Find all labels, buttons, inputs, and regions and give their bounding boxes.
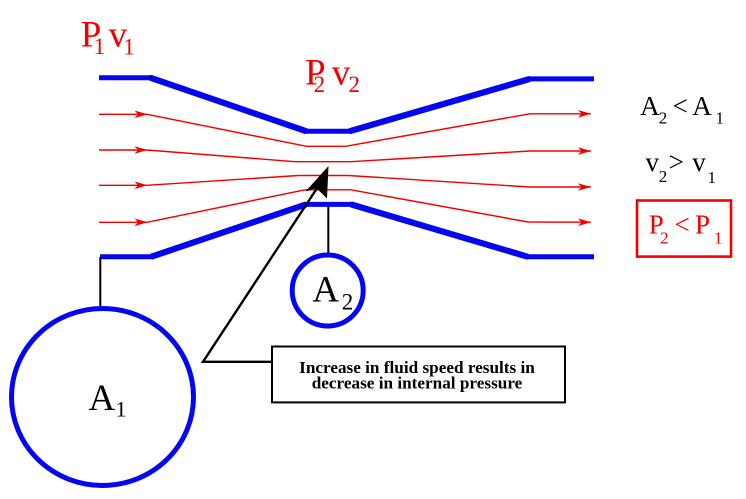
- svg-text:A: A: [640, 91, 660, 121]
- svg-text:v: v: [692, 147, 706, 177]
- svg-text:2: 2: [342, 289, 354, 314]
- svg-text:decrease in internal pressure: decrease in internal pressure: [312, 374, 523, 393]
- svg-text:P: P: [695, 210, 710, 240]
- svg-text:A: A: [89, 378, 116, 419]
- svg-text:1: 1: [716, 108, 725, 127]
- svg-text:2: 2: [659, 108, 668, 127]
- svg-text:A: A: [312, 270, 339, 311]
- svg-text:1: 1: [94, 34, 106, 59]
- svg-text:2: 2: [349, 72, 361, 97]
- svg-text:1: 1: [708, 168, 717, 187]
- svg-text:>: >: [669, 147, 684, 177]
- svg-text:A: A: [692, 91, 712, 121]
- svg-text:1: 1: [123, 34, 135, 59]
- svg-text:<: <: [675, 210, 690, 240]
- svg-text:<: <: [673, 91, 688, 121]
- svg-text:2: 2: [314, 72, 326, 97]
- svg-text:v: v: [646, 147, 660, 177]
- svg-text:1: 1: [116, 397, 127, 422]
- svg-text:2: 2: [660, 229, 669, 248]
- svg-text:1: 1: [714, 229, 723, 248]
- svg-text:2: 2: [659, 167, 668, 186]
